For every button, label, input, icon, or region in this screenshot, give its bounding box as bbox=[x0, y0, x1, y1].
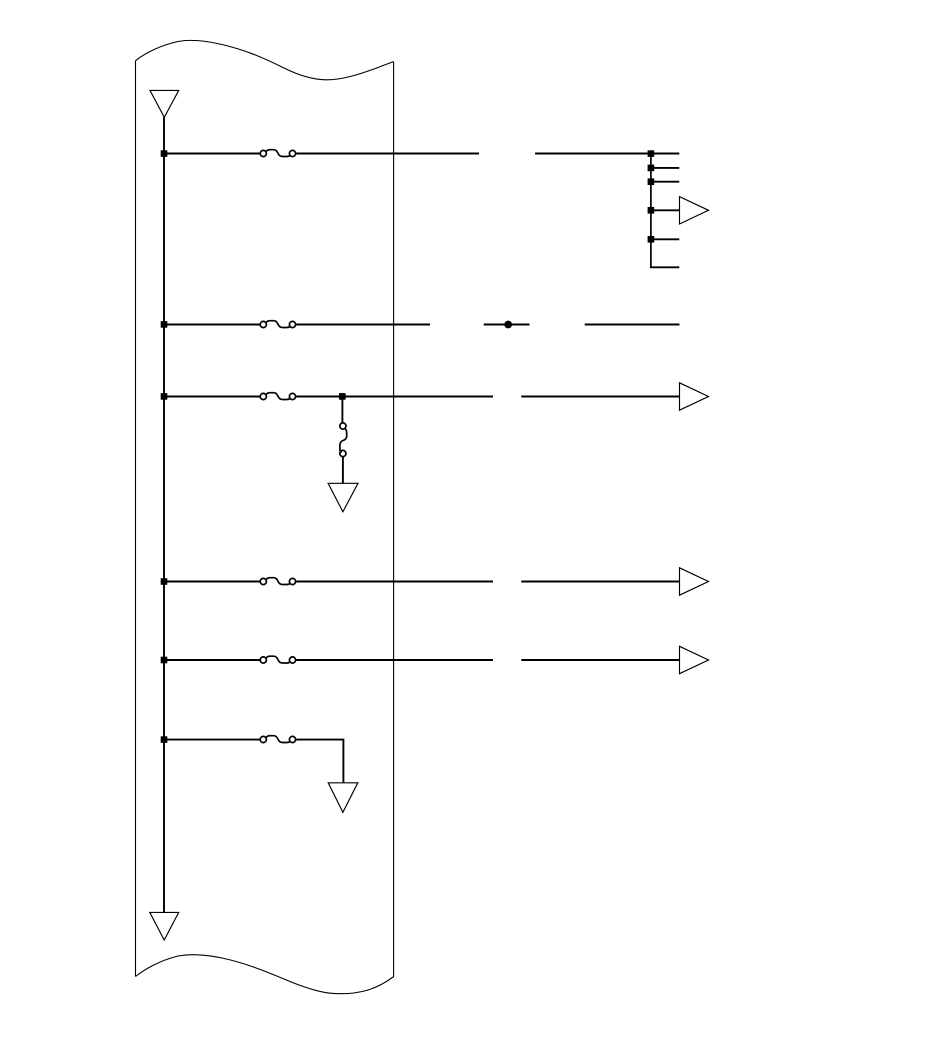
node splice dot row 2 bbox=[504, 321, 512, 329]
wire row 5 right segment bbox=[521, 659, 679, 661]
wire row 3 branch down bbox=[341, 397, 343, 424]
harness outline bottom wavy edge bbox=[136, 955, 394, 994]
wire connector pin 4 stub bbox=[651, 209, 680, 211]
junction on bus row 3 bbox=[161, 393, 168, 400]
fuse F3 bbox=[260, 393, 295, 400]
wire row 2 left segment bbox=[164, 324, 260, 326]
ground triangle bottom of bus bbox=[150, 912, 179, 940]
wire connector pin 2 stub bbox=[651, 167, 679, 169]
fuse F6 bbox=[260, 736, 295, 743]
wire row 4 left segment bbox=[164, 581, 260, 583]
wire connector bottom stub bbox=[651, 265, 679, 268]
connector arrow row 4 bbox=[680, 568, 709, 595]
harness outline right edge bbox=[393, 62, 395, 977]
fuse F5 bbox=[260, 656, 295, 663]
wire row 4 after fuse bbox=[296, 581, 493, 583]
connector bus vertical wire bbox=[650, 154, 652, 268]
wire row 1 left segment bbox=[164, 153, 260, 155]
fuse F1 bbox=[260, 150, 295, 157]
junction connector pin 4 bbox=[648, 207, 655, 214]
junction connector pin 2 bbox=[648, 165, 655, 172]
wire row 5 after fuse bbox=[296, 659, 493, 661]
harness outline left edge bbox=[135, 61, 137, 977]
junction on bus row 5 bbox=[161, 657, 168, 664]
power source symbol (top open triangle) bbox=[150, 90, 179, 117]
fuse F7 (vertical) bbox=[340, 423, 347, 457]
junction connector pin 1 bbox=[648, 150, 655, 157]
wire row 1 right segment bbox=[535, 153, 679, 155]
wire connector pin 5 stub bbox=[651, 238, 679, 240]
wire connector pin 3 stub bbox=[651, 181, 679, 183]
wire row 3 left segment bbox=[164, 396, 260, 398]
ground triangle row 3 branch bbox=[328, 483, 358, 512]
junction on bus row 6 bbox=[161, 736, 168, 743]
main bus wire bbox=[163, 117, 165, 912]
wire row 3 branch to ground bbox=[342, 457, 344, 484]
wire row 2 middle segment bbox=[484, 324, 530, 326]
harness outline top wavy edge bbox=[136, 40, 394, 79]
fuse F2 bbox=[260, 321, 295, 328]
wire row 3 after fuse bbox=[296, 396, 493, 398]
junction connector pin 5 bbox=[648, 236, 655, 243]
wire row 4 right segment bbox=[521, 581, 679, 583]
connector arrow pin 4 bbox=[680, 197, 709, 224]
wire row 6 after fuse, elbow down bbox=[296, 740, 344, 783]
junction row 3 branch bbox=[339, 393, 346, 400]
connector arrow row 3 bbox=[680, 383, 709, 410]
junction on bus row 2 bbox=[161, 321, 168, 328]
wire row 1 after fuse bbox=[296, 153, 479, 155]
wire row 5 left segment bbox=[164, 659, 260, 661]
junction connector pin 3 bbox=[648, 178, 655, 185]
wire row 2 after fuse bbox=[296, 324, 430, 326]
wire row 3 right segment bbox=[521, 396, 679, 398]
junction on bus row 1 bbox=[161, 150, 168, 157]
wire row 2 right segment bbox=[585, 324, 680, 326]
connector arrow row 5 bbox=[680, 646, 709, 673]
wire row 6 left segment bbox=[164, 739, 260, 741]
fuse F4 bbox=[260, 578, 295, 585]
junction on bus row 4 bbox=[161, 578, 168, 585]
ground triangle row 6 bbox=[328, 783, 358, 813]
